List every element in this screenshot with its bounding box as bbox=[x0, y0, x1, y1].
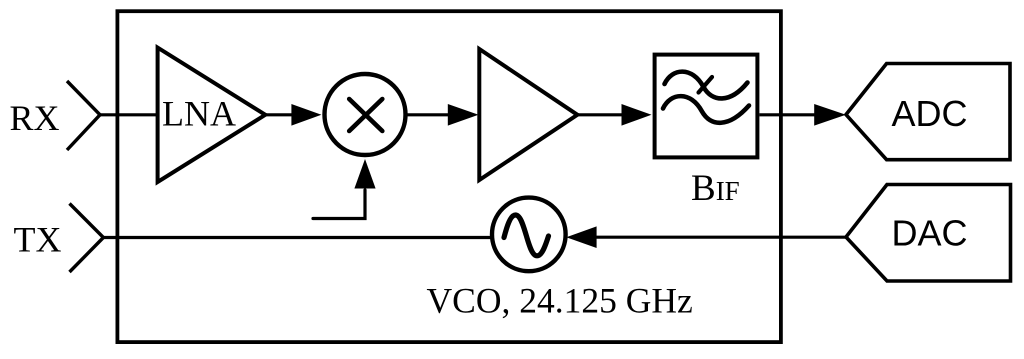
filter lower wave bbox=[663, 96, 749, 123]
TX antenna bbox=[70, 204, 104, 273]
wire TX to VCO bbox=[103, 236, 490, 239]
amplifier A2 (IF amp) bbox=[479, 49, 577, 180]
band-pass filter box bbox=[655, 55, 758, 158]
arrowhead into VCO bbox=[566, 226, 596, 248]
svg-text:LNA: LNA bbox=[162, 94, 236, 134]
arrowhead into filter bbox=[622, 104, 652, 126]
VCO sine wave bbox=[504, 215, 549, 256]
wire LNA to mixer bbox=[265, 113, 294, 116]
svg-text:ADC: ADC bbox=[892, 93, 968, 134]
wire RX to LNA bbox=[100, 113, 159, 116]
wire mixer to IF amplifier bbox=[406, 113, 451, 116]
VCO circle bbox=[492, 198, 566, 272]
svg-text:VCO, 24.125 GHz: VCO, 24.125 GHz bbox=[427, 281, 693, 321]
arrowhead into mixer bbox=[291, 104, 321, 126]
wire IF amp to filter bbox=[577, 113, 624, 116]
RX antenna bbox=[67, 81, 100, 150]
svg-text:DAC: DAC bbox=[892, 213, 968, 254]
filter upper wave bbox=[665, 72, 748, 99]
arrowhead into IF amplifier bbox=[448, 104, 479, 126]
mixer M1 circle bbox=[325, 74, 406, 155]
outer frontend box bbox=[117, 11, 781, 342]
svg-text:RX: RX bbox=[10, 98, 60, 138]
LO stub wire bbox=[313, 190, 365, 219]
amplifier LNA bbox=[158, 48, 266, 182]
arrowhead into ADC bbox=[814, 104, 846, 126]
ADC block bbox=[846, 64, 1010, 160]
filter slash bbox=[699, 77, 713, 93]
DAC block bbox=[846, 185, 1011, 282]
mixer X bbox=[349, 99, 382, 131]
arrowhead LO into mixer bbox=[354, 159, 375, 189]
wire DAC to VCO bbox=[594, 236, 846, 239]
wire filter to ADC bbox=[760, 113, 818, 116]
svg-text:TX: TX bbox=[14, 220, 62, 260]
